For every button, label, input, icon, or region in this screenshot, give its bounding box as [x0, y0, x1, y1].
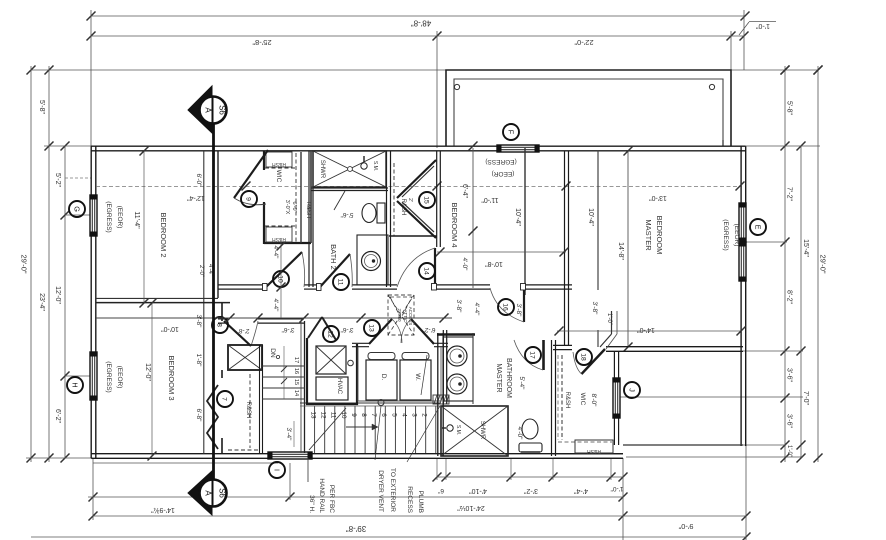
linen closet box [228, 345, 262, 370]
hvac X box [316, 346, 346, 374]
stair up arrow [309, 408, 346, 450]
svg-text:4'-4": 4'-4" [473, 303, 480, 317]
svg-text:12: 12 [320, 411, 327, 419]
door 8 arc [251, 321, 258, 346]
door 10 arc [302, 252, 305, 287]
exterior wall bottom [91, 453, 623, 455]
svg-text:S6: S6 [218, 105, 227, 115]
window tag G [69, 201, 85, 217]
svg-text:R&SH: R&SH [305, 202, 311, 219]
wall bedroom4 closet bottom [389, 235, 437, 237]
svg-text:8'-0": 8'-0" [590, 394, 597, 408]
wall hall bottom y321 seg2 [258, 318, 304, 320]
dim line right x818 [817, 66, 819, 462]
svg-text:DN: DN [269, 348, 276, 358]
svg-text:13: 13 [310, 411, 317, 419]
extension line x91 top [90, 10, 92, 146]
svg-text:A: A [204, 107, 213, 113]
wic1 dashed shelf lines [265, 167, 295, 169]
window I bottom wall [268, 452, 312, 459]
door 11 jamb [317, 284, 322, 291]
svg-text:36" H.: 36" H. [308, 495, 315, 513]
wall bedroom4 closet x437 [436, 151, 438, 247]
svg-text:2': 2' [407, 198, 413, 202]
svg-text:7'-0": 7'-0" [802, 391, 809, 405]
svg-text:BATHROOM: BATHROOM [505, 358, 512, 398]
window J gap [613, 378, 621, 418]
svg-text:MASTER: MASTER [644, 219, 653, 251]
laundry inner box [358, 347, 441, 401]
section marker bottom triangle [188, 471, 212, 515]
wall bedroom2/3 divider y303 [96, 297, 218, 299]
svg-text:R&SH: R&SH [272, 161, 286, 167]
svg-text:4: 4 [400, 413, 407, 417]
tick line right y146 [745, 145, 820, 147]
svg-text:3'-6": 3'-6" [786, 414, 793, 428]
svg-text:7'-2": 7'-2" [786, 187, 793, 201]
svg-text:13'-0": 13'-0" [649, 194, 667, 201]
extension line x437 top [436, 31, 438, 148]
svg-text:1'-8": 1'-8" [195, 354, 202, 368]
dim line right x801 [800, 146, 802, 458]
wall x525 bedroom4 right [524, 148, 526, 295]
svg-text:3'-6": 3'-6" [340, 326, 354, 333]
door 14 leaf [434, 248, 436, 288]
svg-text:G: G [73, 206, 82, 212]
svg-text:4'-0": 4'-0" [461, 258, 468, 272]
door 14 jamb [432, 284, 437, 291]
svg-text:5'-8": 5'-8" [38, 100, 45, 114]
svg-text:S.M.: S.M. [455, 425, 461, 435]
svg-text:E: E [754, 225, 763, 230]
svg-text:3'-8": 3'-8" [591, 302, 598, 316]
exterior wall top [91, 145, 746, 147]
svg-text:14: 14 [293, 390, 299, 396]
door tag 7 [217, 391, 233, 407]
svg-text:I: I [273, 469, 282, 471]
mwic bottom shelf box [575, 440, 613, 453]
door 18 leaf diagonal [582, 349, 606, 374]
east wing bottom edge [623, 444, 743, 446]
hvac walls [307, 338, 357, 404]
svg-text:29'-0": 29'-0" [819, 254, 828, 273]
attic access dashed triangle [390, 297, 412, 318]
door 16 arc [490, 288, 524, 322]
svg-text:11: 11 [337, 278, 344, 285]
window tag F [503, 124, 519, 140]
svg-text:29'-0": 29'-0" [20, 254, 29, 273]
svg-text:R&SH: R&SH [272, 236, 286, 242]
svg-text:6'-0": 6'-0" [195, 174, 202, 188]
svg-text:H: H [71, 382, 80, 387]
svg-text:16: 16 [293, 368, 299, 374]
window H left wall [90, 352, 97, 400]
svg-text:6'-8": 6'-8" [195, 409, 202, 423]
window E right wall upper [739, 203, 746, 242]
svg-text:16: 16 [502, 303, 509, 311]
window I gap [268, 452, 312, 460]
door tag 14 [419, 263, 435, 279]
bath2 vanity [357, 235, 388, 285]
svg-text:22'-0": 22'-0" [574, 38, 593, 47]
window E gap [739, 203, 747, 281]
tick line left y376 window H [65, 375, 91, 377]
hvac small circle [348, 360, 354, 366]
svg-text:14'-0": 14'-0" [637, 326, 655, 333]
dim line y70 [31, 69, 818, 71]
hall dim line y318 [96, 317, 452, 319]
dim line top 48'-8" [91, 15, 745, 17]
svg-text:(EEOR): (EEOR) [116, 206, 123, 229]
svg-text:J: J [628, 388, 637, 392]
svg-text:R&SH: R&SH [245, 402, 251, 419]
svg-text:4'-10": 4'-10" [469, 487, 487, 494]
deck post circle left [454, 84, 459, 89]
svg-text:3'-4": 3'-4" [285, 428, 292, 442]
svg-text:MASTER: MASTER [495, 363, 502, 392]
attic access dashed box [388, 295, 414, 335]
laundry door arcs [392, 319, 402, 343]
stair winder treads [262, 365, 305, 367]
window F gap [497, 145, 539, 153]
svg-text:10: 10 [340, 411, 347, 419]
svg-text:23'-4": 23'-4" [38, 293, 45, 311]
door 11 arc [350, 254, 352, 287]
window tag J [624, 382, 640, 398]
window tag I [269, 462, 285, 478]
svg-text:(EGRESS): (EGRESS) [105, 201, 112, 232]
svg-text:6": 6" [437, 487, 444, 494]
svg-text:SHWR: SHWR [319, 160, 325, 179]
svg-text:S6: S6 [218, 488, 227, 498]
svg-text:10'-4": 10'-4" [514, 208, 521, 226]
laundry top wall [352, 342, 369, 344]
svg-text:12'-4": 12'-4" [187, 194, 205, 201]
tick line right y397 [620, 396, 803, 398]
door 16 leaf [523, 288, 525, 322]
extension line x93 bottom [92, 458, 94, 520]
section marker top circle [200, 97, 227, 124]
bedroom3 dim line x152 [151, 303, 153, 456]
stair left wall [304, 321, 306, 453]
mwic dashed shelves [561, 355, 563, 440]
svg-text:3'-6": 3'-6" [786, 368, 793, 382]
wic1 left wall lower [263, 202, 265, 244]
hvac door 12 leaves [308, 317, 322, 338]
dim line left x49 [48, 66, 50, 462]
extension lines small dims bottom [436, 458, 438, 480]
dryer vent circle [378, 400, 384, 406]
deck inner rectangle [454, 79, 723, 146]
svg-text:D.: D. [380, 374, 387, 381]
recess plumb hatch [433, 395, 449, 404]
svg-text:17: 17 [293, 357, 299, 363]
svg-text:6: 6 [380, 413, 387, 417]
wall hall top y287 seg5 [524, 284, 572, 286]
svg-text:10'-0": 10'-0" [161, 325, 179, 332]
wall bath2 right x388.5 [386, 151, 388, 287]
wall bedroom3 jog x222 [221, 303, 223, 321]
extension line x746 bottom [745, 445, 747, 540]
svg-text:5'-4": 5'-4" [518, 377, 525, 391]
dashed ref line y178 [65, 177, 91, 179]
dim line bottom y537 [31, 536, 746, 538]
door 11 leaf [320, 254, 350, 287]
svg-text:12: 12 [327, 330, 334, 338]
svg-text:25'-8": 25'-8" [252, 38, 271, 47]
wic1 shelf box bottom [266, 227, 292, 242]
svg-text:2'-0": 2'-0" [198, 265, 204, 277]
mbath toilet [522, 419, 538, 439]
door 7 bifold zigzag [207, 385, 218, 449]
svg-text:SHWR: SHWR [479, 421, 485, 440]
svg-text:22X30: 22X30 [397, 308, 402, 322]
bath2 shower head S.M. [361, 163, 367, 169]
svg-text:9'-0": 9'-0" [678, 522, 693, 531]
wic1 shelf box top [266, 152, 292, 167]
exterior wall right [740, 146, 742, 446]
svg-text:5'-8": 5'-8" [786, 101, 793, 115]
door 15 leaf lower [397, 201, 436, 238]
closet b3 walls [259, 345, 261, 454]
svg-text:BATH 2: BATH 2 [329, 244, 338, 270]
hvac lower box [316, 377, 348, 400]
wic1 bottom wall [264, 242, 311, 244]
thin wall x598 master closet [597, 150, 599, 290]
mbath left wall [437, 333, 439, 456]
door tag 11 [333, 274, 349, 290]
svg-text:6'-4": 6'-4" [461, 184, 468, 198]
svg-text:4'-4": 4'-4" [272, 299, 279, 313]
window H gap [90, 352, 98, 400]
mbath right wall x553 [551, 340, 553, 456]
wall bedroom4 dim x473 [472, 148, 474, 288]
tick line right y457 [626, 456, 803, 458]
svg-text:11'-4": 11'-4" [133, 211, 140, 229]
mbath shower head [447, 425, 453, 431]
svg-text:39'-8": 39'-8" [346, 524, 367, 533]
deck post circle right [709, 84, 714, 89]
window E right wall lower [739, 242, 746, 281]
svg-text:1'-0": 1'-0" [786, 445, 792, 457]
svg-text:BEDROOM 4: BEDROOM 4 [450, 202, 459, 247]
svg-text:(EGRESS): (EGRESS) [722, 219, 729, 250]
svg-text:48'-8": 48'-8" [411, 19, 432, 28]
dim line bottom y463 [93, 462, 278, 464]
bath2 shower X [313, 151, 386, 187]
svg-text:9: 9 [350, 413, 357, 417]
mwic bottom wall [553, 453, 623, 455]
bath2 shower box [313, 151, 386, 187]
linen closet X [228, 345, 262, 370]
svg-text:24'-10½": 24'-10½" [457, 504, 485, 512]
deck wall connectors [722, 140, 724, 146]
svg-text:9: 9 [245, 197, 252, 201]
window tag H [67, 377, 83, 393]
bath2 shower bottom double [311, 187, 388, 189]
svg-text:F: F [507, 130, 516, 135]
wall master suite divider y347 [553, 344, 572, 346]
door 17 arc [514, 340, 543, 370]
washer unit [400, 360, 431, 400]
dryer vent leader [375, 406, 381, 460]
svg-text:2'-8": 2'-8" [236, 327, 250, 334]
svg-text:BEDROOM 2: BEDROOM 2 [159, 212, 168, 257]
extension line x623 bottom [622, 458, 624, 540]
section marker bottom circle [200, 480, 227, 507]
extension line x731 top [730, 31, 732, 70]
window G gap [90, 195, 98, 236]
svg-text:7: 7 [221, 397, 228, 401]
door 18 arc [573, 352, 582, 374]
extension line x744 top [743, 10, 745, 70]
svg-text:TO EXTERIOR: TO EXTERIOR [389, 468, 396, 512]
closet b3 dashed shelf [249, 374, 251, 448]
svg-text:PLUMB: PLUMB [417, 491, 424, 513]
svg-text:(EEOR): (EEOR) [492, 170, 515, 177]
svg-text:12'-0": 12'-0" [54, 286, 61, 304]
svg-text:R&SH: R&SH [587, 448, 601, 454]
closet b4 dashed line [393, 163, 395, 236]
window J [613, 378, 620, 418]
wall bedroom2/3 right x218 [203, 151, 205, 454]
extension line x290 bottom [289, 463, 291, 500]
dim line left x65 [64, 146, 66, 458]
deck outer rectangle [446, 70, 731, 146]
hall dim vertical x281 [280, 240, 282, 318]
wic1 inner walls [300, 152, 302, 243]
tick line left y215 window G [65, 214, 91, 216]
door tag 8 [212, 317, 228, 333]
svg-text:7: 7 [370, 413, 377, 417]
svg-text:4'-4": 4'-4" [272, 246, 279, 260]
stair top rail line [300, 402, 440, 404]
svg-text:5: 5 [390, 413, 397, 417]
svg-text:12'-0": 12'-0" [144, 363, 151, 381]
mwic corner jog [611, 311, 613, 334]
stair winder dim line [283, 346, 285, 399]
door 8 leaf [224, 321, 251, 346]
dim line x628 14'-8" [627, 151, 629, 347]
laundry right wall [442, 330, 444, 404]
mbath shower X [441, 406, 508, 456]
wall master bedroom left x566 [564, 151, 566, 346]
mbath top wall [437, 333, 475, 336]
door 15 leaf upper [397, 160, 436, 198]
svg-text:PER FBC: PER FBC [328, 485, 335, 513]
bath2 break line [334, 191, 345, 210]
svg-text:HVAC: HVAC [336, 378, 342, 395]
svg-text:ACCESS: ACCESS [408, 307, 413, 326]
svg-text:5'-6": 5'-6" [340, 211, 354, 218]
door tag 16 [498, 299, 514, 315]
svg-text:(EEOR): (EEOR) [116, 366, 123, 389]
svg-text:WIC: WIC [579, 393, 586, 406]
svg-text:(EEOR): (EEOR) [733, 224, 740, 247]
stair treads [314, 406, 316, 453]
door tag 12 [323, 326, 339, 342]
door 10 leaf [266, 252, 302, 287]
svg-text:10: 10 [277, 275, 284, 283]
window G left wall [90, 195, 97, 236]
dim line bottom y477 [437, 476, 623, 478]
dim line bottom y516 [93, 515, 746, 517]
svg-text:3'-8": 3'-8" [195, 315, 202, 329]
tick line right y351 [743, 350, 803, 352]
dim line bottom y497 [88, 496, 623, 498]
mbath sink2 [447, 374, 467, 394]
svg-text:8'-2": 8'-2" [786, 290, 793, 304]
svg-text:6'-2": 6'-2" [54, 409, 61, 423]
svg-text:15: 15 [293, 379, 299, 385]
svg-text:15: 15 [423, 196, 430, 204]
wall hall top y287 seg4 [436, 284, 490, 286]
svg-text:3'-6": 3'-6" [281, 326, 295, 333]
svg-text:W.: W. [414, 373, 421, 381]
svg-text:11'-0": 11'-0" [481, 196, 499, 203]
svg-text:14: 14 [423, 267, 430, 275]
laundry door 13 leaves [369, 319, 392, 344]
door 10 jamb [263, 284, 268, 291]
svg-text:BEDROOM 3: BEDROOM 3 [167, 355, 176, 400]
svg-text:3'-0"X: 3'-0"X [284, 200, 290, 215]
wall hall top y287 seg3 [352, 284, 397, 286]
recess plumb leader [407, 406, 440, 462]
door tag 17 [525, 347, 541, 363]
svg-text:A: A [204, 490, 213, 496]
door 9 swing arc [234, 198, 266, 205]
window tag E [750, 219, 766, 235]
svg-text:(EGRESS): (EGRESS) [485, 158, 516, 165]
svg-text:13: 13 [368, 324, 375, 332]
svg-text:15'-4": 15'-4" [802, 239, 809, 257]
door 17 leaf [542, 340, 545, 370]
wic1 left wall upper [263, 151, 265, 170]
svg-text:17: 17 [529, 351, 536, 359]
dim line y331 14'-0" [557, 330, 741, 332]
svg-text:5'-2": 5'-2" [54, 173, 61, 187]
dim line top second row [91, 35, 744, 37]
section cut line A-S6 [212, 122, 215, 479]
mbath vanity [443, 337, 473, 401]
svg-text:3'-8": 3'-8" [455, 300, 462, 314]
wall hall bottom y321 seg1 [218, 318, 228, 320]
svg-text:8: 8 [216, 323, 223, 327]
bedroom2 dim line x144 [143, 151, 145, 303]
door 16 jamb [521, 284, 526, 291]
svg-text:8: 8 [360, 413, 367, 417]
svg-text:R&SH: R&SH [564, 392, 570, 409]
svg-text:3'-2": 3'-2" [524, 487, 538, 494]
section marker top triangle [188, 86, 212, 133]
svg-text:3'-8": 3'-8" [515, 304, 522, 318]
wall hall top y287 seg2 [304, 284, 320, 286]
svg-text:RECESS: RECESS [406, 486, 413, 513]
svg-text:S.M.: S.M. [372, 161, 378, 171]
door 15 leaf inner lines [402, 166, 434, 197]
door 14 arc [397, 248, 435, 287]
dim line left x31 29'-0" [30, 66, 32, 462]
svg-text:4'-4": 4'-4" [574, 487, 588, 494]
door tag 10 [273, 271, 289, 287]
svg-text:6'-0": 6'-0" [291, 202, 297, 213]
tick line right y242 [746, 241, 787, 243]
svg-text:18: 18 [580, 353, 587, 361]
door tag 15 [419, 192, 435, 208]
dryer unit [366, 360, 397, 400]
svg-text:4'-0": 4'-0" [516, 427, 523, 441]
wall hall top y287 seg1 [218, 284, 266, 286]
